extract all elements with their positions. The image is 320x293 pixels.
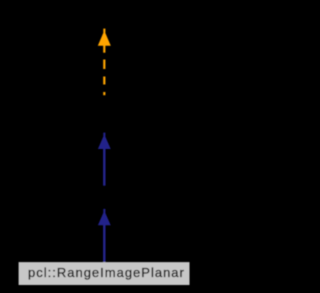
svg-text:pcl::RangeImagePlanar: pcl::RangeImagePlanar <box>28 265 185 280</box>
node pcl::RangeImagePlanar (current class, grey filled box) <box>19 262 190 285</box>
arrow: inheritance pcl::RangeImage -&gt; pcl::PointCloud&lt;PointWithRange&gt; (midnight blue) <box>98 133 111 186</box>
arrow: template-instance relation (orange dashed, points up to pcl::PointCloud&lt;PointT&gt;) <box>98 29 111 96</box>
arrow: inheritance pcl::RangeImagePlanar -&gt; pcl::RangeImage (midnight blue) <box>98 209 111 263</box>
